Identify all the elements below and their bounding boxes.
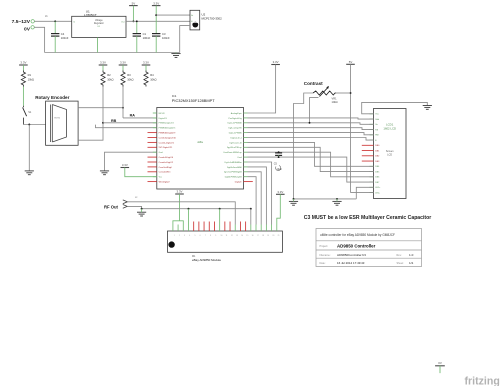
module pin 1 stub	[172, 225, 174, 232]
wire bus IC pin5R to LCD	[248, 133, 374, 135]
power flag 3.3V module right	[276, 190, 285, 194]
svg-text:ComOut4Digtl: ComOut4Digtl	[159, 166, 173, 169]
wire bus IC pin7R to LCD	[248, 142, 374, 166]
wire rail to module pin 16	[250, 209, 252, 225]
module pin 10 stub	[219, 225, 221, 232]
svg-text:PIC32MX150F128BMPT: PIC32MX150F128BMPT	[172, 98, 215, 103]
svg-text:4: 4	[189, 235, 190, 237]
wire J1- to ground rail	[34, 27, 44, 52]
IC1 right pin 15 red stub	[244, 181, 253, 183]
power flag 5V contrast	[346, 60, 355, 64]
svg-text:9: 9	[215, 235, 216, 237]
IC1 right pin 14 stub	[244, 176, 248, 178]
title block frame	[316, 229, 422, 267]
svg-text:Vo: Vo	[191, 15, 193, 17]
svg-text:18: 18	[262, 235, 264, 237]
svg-text:Vcc: Vcc	[159, 177, 162, 179]
IC1 right pin 6 stub	[244, 137, 248, 139]
wire IC pin9 VSS to ground	[105, 152, 157, 171]
module pin 17 stub	[255, 225, 257, 232]
capacitor C1 100nF	[136, 21, 138, 33]
module pin 12 stub	[229, 222, 231, 232]
wire 3.3V to R3	[122, 65, 124, 71]
svg-text:11: 11	[226, 235, 228, 237]
IC1 left pin 9 stub	[153, 151, 157, 153]
svg-text:10: 10	[220, 235, 222, 237]
wire U2 ground to rail	[180, 26, 190, 53]
IC1 right pin 10 stub	[244, 156, 248, 158]
ground below S1	[25, 171, 34, 175]
resistor R2 10k	[101, 71, 105, 87]
svg-text:8: 8	[210, 235, 211, 237]
wire 3.3V to R2	[102, 65, 104, 71]
wire pot right terminal	[336, 92, 351, 94]
ground RF	[137, 212, 146, 216]
svg-text:Rotary Encoder: Rotary Encoder	[35, 95, 69, 100]
svg-text:10kΩ: 10kΩ	[127, 78, 133, 82]
svg-text:Regulator: Regulator	[94, 22, 104, 25]
svg-text:C4: C4	[61, 32, 65, 36]
wire RF out signal to module pin 13	[127, 202, 235, 225]
svg-text:10kΩ: 10kΩ	[332, 100, 338, 104]
power flag 3.3V R4	[142, 61, 151, 65]
IC1 right pin 3 stub	[244, 122, 248, 124]
svg-text:19: 19	[267, 235, 269, 237]
wire IC pin11R to AD9850 module	[248, 162, 272, 225]
LCD pin 1 Vss	[370, 113, 374, 115]
IC1 left pin 13 red stub	[148, 171, 157, 173]
svg-text:DgtlCount-1tl: DgtlCount-1tl	[230, 141, 243, 144]
IC1 right pin 11 stub	[244, 161, 248, 163]
wire 5V rail U1 to U2	[126, 20, 190, 22]
wire bus IC pin9R to LCD	[248, 152, 374, 177]
svg-text:16 Jul 2014 17:49:43: 16 Jul 2014 17:49:43	[337, 261, 365, 265]
power flag 3.3V MCLR pullup	[271, 60, 280, 64]
wire bus IC pin4R to LCD	[248, 128, 374, 130]
module pin 7 stub	[203, 222, 205, 232]
svg-text:3.3V: 3.3V	[277, 190, 283, 194]
module pin 18 stub	[260, 225, 262, 232]
rotary encoder pin A wire to RA	[78, 107, 123, 109]
svg-text:3.3V: 3.3V	[100, 61, 106, 65]
svg-text:1/1: 1/1	[409, 261, 414, 265]
module pin 16 stub	[250, 225, 252, 232]
LCD pin 13 DB6	[370, 176, 374, 178]
module pin 4 stub	[187, 225, 189, 232]
svg-text:AD9850 Controller: AD9850 Controller	[337, 243, 376, 248]
module pin 15 stub	[245, 222, 247, 232]
resistor R3 10k	[121, 71, 125, 87]
IC1 left pin 12 red stub	[148, 166, 157, 168]
connector J2 RF out pins	[123, 200, 128, 208]
svg-text:16: 16	[252, 235, 254, 237]
svg-text:Digital#: Digital#	[235, 181, 243, 184]
svg-text:C3: C3	[162, 32, 166, 36]
resistor R1 10k	[21, 71, 25, 87]
module pin 3 stub	[182, 225, 184, 232]
svg-text:100nF: 100nF	[61, 36, 69, 40]
power flag 5V	[129, 1, 138, 5]
svg-text:10µF: 10µF	[277, 168, 283, 171]
svg-text:3.3V: 3.3V	[177, 190, 183, 194]
module pin 20 stub	[271, 225, 273, 232]
IC1 right pin 12 stub	[244, 166, 248, 168]
svg-text:3.3V: 3.3V	[153, 1, 159, 5]
svg-text:1: 1	[174, 235, 175, 237]
wire R1 to switch S1	[22, 87, 24, 106]
svg-text:RA: RA	[130, 114, 136, 118]
svg-text:Analog4/pin: Analog4/pin	[231, 112, 243, 115]
svg-text:100nF: 100nF	[143, 36, 151, 40]
svg-text:R3: R3	[127, 73, 131, 77]
LCD pin 5 RW	[370, 134, 374, 136]
connector J1 label 7.5~12V / 0V	[12, 15, 49, 32]
svg-text:5VT-Digital#21: 5VT-Digital#21	[159, 146, 173, 149]
svg-text:12: 12	[231, 235, 233, 237]
capacitor C3 100nF low ESR	[152, 34, 160, 37]
svg-text:Count4-Digital#1: Count4-Digital#1	[159, 141, 175, 144]
wire J1+ to U1 input	[34, 20, 71, 22]
wire 3.3V to module pins 1-3	[179, 194, 181, 221]
LCD pin 9 DB2	[362, 155, 374, 157]
module pin 21 stub	[276, 225, 278, 232]
svg-text:20: 20	[272, 235, 274, 237]
svg-text:Dgtl+4nMKB4tlBm: Dgtl+4nMKB4tlBm	[225, 161, 242, 164]
wire 3.3V to R4	[145, 65, 147, 71]
ground LCD backlight	[332, 201, 341, 205]
IC1 left pin 7 red stub	[148, 141, 157, 143]
svg-text:6: 6	[200, 235, 201, 237]
svg-text:1602 LCD: 1602 LCD	[383, 126, 396, 130]
capacitor C4 100nF	[54, 21, 56, 33]
svg-text:Digital#3: Digital#3	[159, 117, 168, 120]
svg-text:5: 5	[194, 235, 195, 237]
voltage regulator U1 L7805CT	[72, 16, 126, 37]
wire bus IC pin8R to LCD	[248, 147, 374, 171]
svg-text:7.5~12V: 7.5~12V	[12, 19, 31, 25]
IC1 left pin 14 stub	[153, 176, 157, 178]
svg-text:fritzing: fritzing	[465, 375, 500, 386]
power flag 3.3V IC Vcc	[121, 163, 130, 167]
wire 3.3V flag to C3 and U2 Vout	[155, 6, 157, 34]
svg-text:ComIn4-Digtl#6: ComIn4-Digtl#6	[159, 156, 174, 159]
LCD pin 2 Vdd	[370, 118, 374, 120]
svg-text:WireDigital#: WireDigital#	[159, 181, 171, 184]
rotary encoder ROT1 body	[46, 101, 79, 145]
svg-text:PWM6M-Digital#5: PWM6M-Digital#5	[159, 127, 177, 130]
svg-text:15: 15	[246, 235, 248, 237]
wire bus IC pin2R to LCD	[248, 118, 374, 119]
svg-text:3.3V: 3.3V	[143, 61, 149, 65]
svg-text:RW: RW	[375, 135, 378, 137]
svg-text:17: 17	[257, 235, 259, 237]
module pin 11 stub	[224, 222, 226, 232]
svg-text:10kΩ: 10kΩ	[107, 78, 113, 82]
svg-text:LED-: LED-	[375, 192, 380, 194]
wire 5V to LCD pin16	[351, 192, 374, 194]
wire IC pin13R to AD9850 module	[248, 172, 262, 225]
svg-text:Dgtl4nPWMany4B: Dgtl4nPWMany4B	[225, 176, 243, 179]
LCD pin 8 DB1	[362, 150, 374, 152]
LCD pin 6 E	[370, 139, 374, 141]
svg-text:3.3V: 3.3V	[122, 163, 128, 167]
IC U-chip IC1 PIC32MX150F128BMPT body	[157, 108, 244, 190]
LCD pin 16 LED-	[370, 192, 374, 194]
wire S1 to rotary encoder pin	[23, 124, 45, 126]
svg-text:Dgtl+4-Dig#9tl: Dgtl+4-Dig#9tl	[228, 127, 242, 130]
svg-text:CountIn-Digtl#2: CountIn-Digtl#2	[159, 161, 174, 164]
svg-text:Sheet:: Sheet:	[397, 262, 405, 265]
wire RA to IC pin 2	[122, 87, 124, 118]
svg-text:MCP1700-3302: MCP1700-3302	[202, 17, 223, 21]
net flag 0V bottom right	[435, 361, 445, 373]
IC1 left pin 4 stub	[153, 127, 157, 129]
wire S1 junction to ground	[28, 125, 30, 171]
svg-text:ComRxair-MKB4-up: ComRxair-MKB4-up	[223, 151, 242, 154]
IC1 left pin 11 red stub	[148, 161, 157, 163]
IC1 right pin 4 stub	[244, 127, 248, 129]
svg-text:LED+: LED+	[375, 187, 381, 189]
svg-text:R4: R4	[150, 73, 154, 77]
svg-text:Out: Out	[121, 20, 125, 23]
LCD pin 11 DB4	[370, 165, 374, 167]
wire 3.3V to R1	[22, 65, 24, 71]
wire pot wiper to LCD Vo	[310, 98, 319, 123]
svg-text:3.3V: 3.3V	[20, 61, 26, 65]
svg-text:0V: 0V	[24, 26, 31, 32]
svg-text:5V: 5V	[132, 1, 136, 5]
svg-text:PwrDigital-Dig: PwrDigital-Dig	[229, 117, 243, 120]
svg-text:Date:: Date:	[320, 262, 326, 265]
IC1 left pin 8 red stub	[148, 146, 157, 148]
wire LED ground rail	[294, 198, 357, 200]
svg-text:0V: 0V	[438, 361, 442, 365]
resistor R4 10k	[144, 71, 148, 87]
svg-text:1.0: 1.0	[409, 253, 414, 257]
svg-text:Digital+4e-1: Digital+4e-1	[231, 136, 243, 139]
svg-text:Dgtl+4-PWM4tl: Dgtl+4-PWM4tl	[228, 122, 243, 125]
regulator U2 MCP1700-3302	[190, 10, 200, 30]
wire pot left terminal to ground	[294, 93, 314, 199]
svg-text:2: 2	[179, 235, 180, 237]
IC1 left pin 6 red stub	[148, 137, 157, 139]
IC1 right pin 8 stub	[244, 146, 248, 148]
svg-text:R2: R2	[107, 73, 111, 77]
wire bus IC pin10R to LCD	[248, 157, 374, 182]
LCD pin 10 DB3	[362, 160, 374, 162]
svg-text:10kΩ: 10kΩ	[28, 78, 34, 82]
wire LCD Vss to ground top right	[362, 102, 428, 113]
module pin 2 stub	[177, 225, 179, 232]
svg-text:L7805CT: L7805CT	[84, 13, 97, 17]
svg-text:10kΩ: 10kΩ	[150, 78, 156, 82]
power flag 3.3V R3	[119, 61, 128, 65]
svg-text:Dgtl4n5mmMBtl: Dgtl4n5mmMBtl	[227, 166, 242, 169]
IC1 left pin 10 red stub	[148, 156, 157, 158]
svg-text:3.3V: 3.3V	[273, 60, 279, 64]
svg-text:ConsoleWire: ConsoleWire	[159, 171, 172, 174]
svg-text:5gCm4-PWMnlg4B: 5gCm4-PWMnlg4B	[224, 172, 242, 174]
svg-text:uMite controller for eBay AD98: uMite controller for eBay AD9850 Module …	[320, 233, 395, 237]
svg-text:uMite: uMite	[197, 141, 204, 144]
svg-text:LCD: LCD	[387, 154, 392, 157]
wire IC pin1R to 3.3V flag	[248, 65, 276, 114]
svg-text:AD9850Controller.fzz: AD9850Controller.fzz	[337, 253, 367, 257]
svg-text:In: In	[73, 21, 75, 23]
svg-text:14: 14	[241, 235, 243, 237]
LCD pin 14 DB7	[370, 181, 374, 183]
svg-text:R1: R1	[28, 73, 32, 77]
svg-text:7: 7	[205, 235, 206, 237]
potentiometer VR1 10k	[313, 91, 336, 95]
svg-text:100nF: 100nF	[162, 36, 170, 40]
IC1 left pin 3 stub	[153, 122, 157, 124]
switch S1 rotary encoder push	[23, 106, 32, 125]
svg-text:C1: C1	[143, 32, 147, 36]
IC1 right pin 9 stub	[244, 151, 248, 153]
svg-text:MCLR: MCLR	[159, 113, 165, 115]
rotary encoder pin B wire	[78, 123, 103, 140]
wire rail to module pin 10	[219, 209, 221, 225]
wire rail to LCD LED+	[356, 187, 373, 199]
svg-text:Rev:: Rev:	[397, 254, 402, 257]
IC1 right pin 1 stub	[244, 112, 248, 114]
ground pot	[289, 201, 298, 205]
svg-text:eBay AD9850 Module: eBay AD9850 Module	[192, 258, 221, 262]
svg-text:Voltage: Voltage	[95, 19, 103, 22]
wire bus IC pin6R to LCD	[248, 138, 374, 141]
wire 3.3V flag to IC Vcc pin	[125, 168, 157, 177]
svg-text:5V: 5V	[349, 60, 353, 64]
svg-text:13: 13	[236, 235, 238, 237]
module pin 5 stub	[193, 222, 195, 232]
wire 5V down to LCD LED-	[350, 64, 352, 192]
svg-text:21: 21	[278, 235, 280, 237]
LCD pin 7 DB0	[362, 144, 374, 146]
module pin 19 stub	[265, 225, 267, 232]
module pin 6 stub	[198, 222, 200, 232]
LCD pin 15 LED+	[370, 186, 374, 188]
svg-text:Filename:: Filename:	[320, 254, 331, 257]
module pin 9 stub	[213, 222, 215, 232]
svg-text:Project:: Project:	[320, 245, 329, 248]
svg-text:IC1: IC1	[172, 94, 177, 98]
svg-text:ROT1: ROT1	[55, 117, 61, 119]
LCD module LCD1 body	[374, 109, 407, 199]
IC1 left pin 15 red stub	[148, 181, 157, 183]
svg-text:RB: RB	[111, 119, 117, 123]
LCD pin 3 Vo	[370, 123, 374, 125]
IC1 right pin 13 stub	[244, 171, 248, 173]
capacitor C5 10uF across bus	[278, 151, 280, 154]
module pin 8 stub	[208, 222, 210, 232]
svg-text:ComIn4-Digital#10: ComIn4-Digital#10	[159, 136, 177, 139]
wire rail to module pin 4	[187, 209, 189, 225]
IC1 left pin 1 stub	[153, 112, 157, 114]
svg-text:C3 MUST be a low ESR Multilaye: C3 MUST be a low ESR Multilayer Ceramic …	[304, 215, 431, 221]
wire RF out ground	[127, 206, 141, 208]
power flag 3.3V R1	[19, 61, 28, 65]
IC1 right pin 5 stub	[244, 132, 248, 134]
wire IC pin14R to AD9850 module	[248, 177, 257, 225]
svg-text:PWM5M-Digital#9: PWM5M-Digital#9	[159, 132, 177, 135]
svg-text:VR1: VR1	[332, 96, 338, 100]
wire RB to IC pin 3	[102, 87, 104, 123]
svg-text:Vss: Vss	[375, 114, 378, 116]
svg-text:Dgtl+4-PWM6: Dgtl+4-PWM6	[229, 132, 243, 135]
IC1 left pin 2 stub	[153, 117, 157, 119]
ground below encoder	[100, 171, 109, 175]
ground rail	[45, 52, 180, 54]
svg-text:Contrast: Contrast	[304, 81, 323, 86]
power flag 3.3V rail	[152, 1, 161, 5]
IC1 left pin 5 red stub	[148, 132, 157, 134]
wire 3.3V to module pin 21	[277, 194, 281, 224]
svg-text:PWM4-Digital#4: PWM4-Digital#4	[159, 122, 175, 125]
IC1 right pin 7 stub	[244, 141, 248, 143]
ground LCD Vss	[423, 106, 432, 110]
wire IC pin4 to encoder switch area	[96, 125, 157, 128]
IC1 right pin 2 stub	[244, 117, 248, 119]
LCD pin 4 RS	[370, 129, 374, 131]
svg-text:RF Out: RF Out	[104, 205, 119, 210]
module pin 14 stub	[239, 222, 241, 232]
wire U1 ground pin	[97, 37, 99, 52]
power flag 3.3V R2	[99, 61, 108, 65]
module M1 eBay AD9850 body	[168, 231, 283, 252]
power flag 3.3V module left	[175, 190, 184, 194]
wire bus IC pin3R to LCD	[248, 123, 374, 125]
module ground rail	[142, 208, 251, 210]
ground	[171, 54, 180, 58]
svg-text:3: 3	[184, 235, 185, 237]
wire IC pin12R to AD9850 module	[248, 167, 267, 225]
module pin 13 stub	[234, 225, 236, 232]
svg-text:3.3V: 3.3V	[120, 61, 126, 65]
svg-text:5gp32nnP38-up: 5gp32nnP38-up	[227, 147, 243, 149]
LCD pin 12 DB5	[370, 171, 374, 173]
